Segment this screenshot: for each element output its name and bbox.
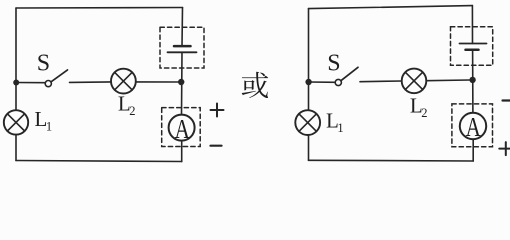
switch S blade (open), right circuit — [341, 67, 358, 80]
ammeter dashed box, right circuit — [452, 104, 493, 147]
wire: lamp L2 to right node, right circuit — [426, 79, 469, 82]
wire: switch to lamp L2, left circuit — [70, 81, 112, 84]
node: right junction of switch branch, right circuit — [469, 77, 475, 83]
wire: bottom side, right circuit — [309, 159, 474, 162]
battery B1: long (positive) plate below — [168, 51, 197, 53]
wire: ammeter to bottom wire, right circuit — [472, 139, 474, 161]
wire: lamp L2 to right node, left circuit — [136, 81, 178, 83]
ammeter A1 circle, left circuit — [169, 115, 195, 141]
svg-text:S: S — [37, 51, 50, 77]
polarity + sign, left circuit — [211, 104, 224, 117]
battery B2: long (positive) plate on top — [460, 43, 487, 45]
wire: switch to lamp L2, right circuit — [360, 80, 402, 83]
svg-text:A: A — [175, 114, 190, 145]
battery dashed box, right circuit — [451, 27, 493, 66]
ammeter A2 circle, right circuit — [460, 113, 486, 139]
battery dashed box, left circuit — [160, 27, 204, 68]
wire: ammeter to bottom wire, left circuit — [181, 140, 183, 161]
battery B2: short (negative) plate below — [466, 49, 479, 52]
polarity - sign, left circuit — [211, 145, 222, 147]
lamp L1, left circuit — [4, 110, 28, 134]
lamp L2, left circuit — [111, 69, 136, 94]
svg-text:S: S — [327, 50, 340, 76]
switch S blade (open), left circuit — [51, 70, 68, 82]
polarity - sign (top), right circuit — [503, 99, 510, 101]
wire: left side, left circuit — [15, 8, 17, 161]
node: left junction of switch branch, right circuit — [305, 79, 311, 85]
wire: bottom side, left circuit — [16, 161, 182, 162]
wire: top side, left circuit — [16, 7, 183, 10]
wire: right side upper (top corner to battery), left circuit — [181, 8, 184, 47]
wire: battery to ammeter through node, right circuit — [472, 50, 474, 113]
wire: battery to ammeter through node, left circuit — [181, 52, 184, 115]
chinese character 'huo' (or) separator — [242, 72, 268, 98]
wire: top side, right circuit — [309, 6, 473, 9]
node: left junction of switch branch, left circuit — [13, 80, 19, 86]
lamp L1, right circuit — [295, 110, 320, 135]
battery B1: short (negative) plate on top — [174, 45, 191, 48]
node: right junction of switch branch, left circuit — [178, 79, 184, 85]
wire: node to switch pivot, right circuit — [309, 81, 336, 83]
wire: node to switch pivot, left circuit — [16, 82, 45, 84]
wire: left side, right circuit — [308, 9, 310, 161]
wire: right side upper (top corner to battery), right circuit — [471, 6, 473, 44]
svg-text:A: A — [466, 112, 481, 143]
polarity + sign (bottom), right circuit — [499, 142, 510, 155]
switch S pivot circle, left circuit — [45, 81, 51, 87]
lamp L2, right circuit — [402, 69, 427, 94]
switch S pivot circle, right circuit — [335, 79, 341, 85]
ammeter dashed box, left circuit — [162, 108, 201, 147]
